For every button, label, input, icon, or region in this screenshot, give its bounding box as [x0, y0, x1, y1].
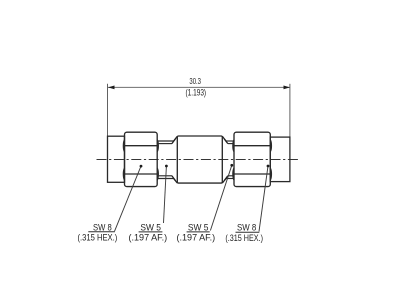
chamfer from cylinder (top)	[222, 136, 226, 141]
dimension line 30.3	[108, 86, 290, 88]
svg-text:(.197 AF.): (.197 AF.)	[177, 232, 216, 242]
svg-text:(.315 HEX.): (.315 HEX.)	[225, 233, 263, 243]
dimension arrow right	[284, 86, 291, 90]
center cylinder body	[177, 136, 222, 183]
right barrel	[270, 137, 290, 182]
chamfer from cylinder (bottom)	[222, 179, 226, 184]
label 3: SW 5 (.197 AF.)	[177, 221, 216, 242]
label 4: SW 8 (.315 HEX.)	[225, 222, 263, 243]
hex nut SW8 left	[123, 132, 158, 186]
svg-text:SW 8: SW 8	[237, 222, 256, 233]
leader line 4 (SW8 right)	[259, 166, 268, 232]
leader dot 2	[165, 165, 168, 168]
svg-text:SW 5: SW 5	[188, 221, 209, 232]
centerline (dash-dot axis)	[97, 159, 299, 161]
svg-text:(.197 AF.): (.197 AF.)	[129, 232, 168, 242]
chamfer to cylinder (top)	[174, 136, 178, 141]
left barrel	[108, 136, 125, 182]
svg-text:(1.193): (1.193)	[186, 88, 207, 98]
leader dot 4	[267, 165, 270, 168]
leader line 2 (SW5 left)	[164, 166, 167, 223]
svg-text:(.315 HEX.): (.315 HEX.)	[78, 232, 118, 242]
label 2: SW 5 (.197 AF.)	[129, 221, 168, 242]
extension line left	[107, 84, 109, 137]
chamfer to cylinder (bottom)	[174, 179, 178, 184]
leader dot 3	[230, 164, 233, 167]
svg-text:30.3: 30.3	[189, 76, 201, 86]
leader line 1 (SW8 left)	[115, 166, 142, 231]
extension line right	[289, 84, 291, 137]
neck SW5 left	[157, 136, 177, 183]
leader line 3 (SW5 right)	[210, 165, 231, 230]
svg-text:SW 5: SW 5	[140, 221, 161, 232]
neck SW5 right	[222, 136, 234, 183]
hex nut SW8 right	[233, 132, 272, 186]
svg-text:SW 8: SW 8	[93, 221, 112, 232]
dimension arrow left	[108, 86, 115, 90]
leader dot 1	[140, 165, 143, 168]
label 1: SW 8 (.315 HEX.)	[78, 221, 118, 242]
